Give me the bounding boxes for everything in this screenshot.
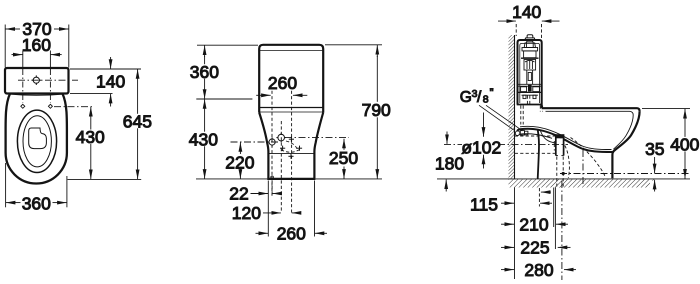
svg-text:ø102: ø102 [461,137,501,157]
svg-text:360: 360 [190,62,219,82]
top view: centreline through button [18,79,78,81]
top view: right seat hinge diamond [48,104,52,108]
svg-text:260: 260 [277,224,306,244]
dimension 160 [12,54,62,56]
svg-text:120: 120 [232,203,261,223]
label G3/8" [460,87,494,106]
sub-floor reference: 115 hidden line [538,188,540,207]
dimension 260 (base width) [256,232,328,234]
side view: bowl front curve and foot [612,111,639,178]
top view: sump outline [29,128,47,149]
side view: outlet centreline [444,143,568,145]
svg-text:220: 220 [225,152,254,172]
side view: supply pipe hidden lines [521,106,523,125]
side view: flush button [525,35,534,40]
svg-text:430: 430 [76,127,105,147]
front view: base fixing circle [271,176,274,179]
side view: flush pipe hidden lines [540,106,542,112]
side view: outlet axis tick [553,141,555,151]
top view: seat inner opening [23,116,51,167]
svg-text:645: 645 [123,111,152,131]
svg-text:250: 250 [329,148,358,168]
top view: left fixing-hole centreline [22,51,24,104]
side view: plinth back line [538,130,539,178]
dimension 370 [5,25,69,68]
side view: vertical outlet axis [582,150,584,187]
front view: lower fixing hole symbol [268,137,277,146]
svg-text:8: 8 [483,94,489,106]
side view: wall face line [514,35,516,179]
side view: plinth inner elbow line [540,131,555,143]
svg-text:35: 35 [645,139,664,159]
dimension 140 (tank depth, top view) [70,57,141,107]
sub-floor reference: outlet axis [561,181,563,280]
top view: push-button target symbol [32,75,42,85]
svg-text:790: 790 [362,100,391,120]
svg-text:": " [490,87,494,99]
top view: right fixing-hole centreline [49,51,51,104]
side view: cistern fill valve mechanism [519,41,543,98]
side view: floor hatching [509,179,657,187]
top view: tank front lower edge [6,94,69,96]
side view: tank inner wall [520,43,540,103]
dimension 790 [325,45,382,179]
front view: upper hole centreline [285,137,349,139]
dimension 400 [642,109,690,179]
svg-text:140: 140 [96,72,125,92]
top view: bowl outline [6,94,67,184]
front view: pedestal waist line [269,153,315,155]
front view: base edge extension lines [268,181,314,237]
side view: horizontal outlet hidden lines [515,136,555,153]
front view: tank outline [259,45,323,113]
svg-text:115: 115 [470,195,498,215]
sub-floor reference: outlet pipe lines [554,188,556,250]
dimension 35 [650,181,660,193]
side view: rim inner line [546,111,634,149]
side view: outlet flange [555,134,564,155]
baseline under top view [68,178,142,180]
top view: seat outer ring [17,110,56,172]
dimension 360 (top view width) [6,163,67,207]
svg-text:G: G [460,89,472,106]
front view: supply hole line right [291,91,293,213]
front view: floor line [196,178,382,180]
sub-floor reference: wall extension line [514,188,516,280]
side view: tank bottom line [517,104,542,106]
side view: low outlet centreline with junction dot [560,172,690,175]
side view: bowl back lower companion line [519,134,553,139]
leaders from G3/8 label [479,105,523,131]
side view: bowl rim top [542,108,640,111]
svg-text:280: 280 [524,260,553,280]
dimension o102 [483,113,485,169]
top view: left seat hinge diamond [21,104,25,108]
svg-text:400: 400 [670,135,699,155]
side view: tank outline [518,40,542,108]
dimension 280 [501,269,576,271]
svg-text:22: 22 [229,184,248,204]
svg-text:225: 225 [520,238,549,258]
dimension 430 (front view) [204,99,206,179]
dimension 120 [263,212,301,214]
svg-text:430: 430 [189,129,218,149]
front view: upper fixing hole symbol [276,133,286,143]
svg-text:260: 260 [268,73,297,93]
svg-text:210: 210 [519,214,548,234]
front view: pedestal base [267,178,315,180]
dimension 220 [239,142,241,179]
dimension 140 (side view tank depth) [498,21,560,39]
svg-text:/: / [477,89,482,106]
side view: bowl back outer sweep [517,129,612,152]
dimension 22 [251,193,283,195]
dimension 210 [501,223,568,225]
side view: vertical outlet hidden lines [557,157,563,187]
side view: hidden trap curve inner [565,146,570,179]
small arrow at hidden line [541,191,551,193]
side view: floor line [437,178,690,180]
side view: supply fitting [515,131,528,136]
side view: bowl back upper companion line [520,126,612,149]
dimension 645 [137,69,139,179]
dimension 360 (front view tank height) [196,45,258,99]
side view: wall hatching [509,35,515,179]
dimension 180 [445,132,448,192]
dimension 250 [343,139,345,179]
svg-text:140: 140 [512,2,541,22]
front view: cross marks [280,137,302,159]
top view: cistern tank outline [5,68,69,94]
dimension 225 [501,246,571,248]
dimension 260 (tank holes) [256,94,307,96]
front view: supply hole line left [271,91,273,196]
front view: bowl sides [259,113,323,179]
svg-text:180: 180 [435,153,464,173]
dimension 115 [501,202,552,204]
front view: middle hole line [280,121,282,213]
svg-text:160: 160 [22,35,51,55]
front view: lower hole centreline [231,141,280,143]
dimension 430 (top view) [54,107,94,179]
side view: hidden trap curve outer [571,138,606,177]
svg-text:360: 360 [22,194,51,214]
side view: mechanism hidden lines to bowl [527,96,529,105]
front view: hidden trap arcs [281,141,300,152]
front view: tank lid seam lines [259,108,323,113]
